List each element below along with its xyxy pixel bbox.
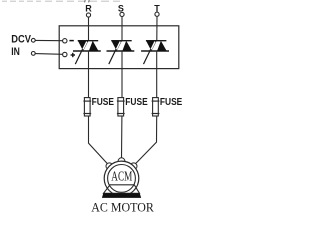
wire IN to box — [35, 53, 62, 56]
wire Q3 to fuse F3 — [156, 51, 158, 98]
svg-text:S: S — [118, 3, 124, 13]
plus sign — [71, 54, 75, 56]
terminal DCV — [31, 38, 35, 42]
node minus input — [63, 39, 67, 43]
fuse F3 — [152, 96, 183, 116]
wire Q2 to fuse F2 — [121, 51, 123, 98]
fuse F2 — [117, 96, 148, 116]
wire F2 to motor — [121, 116, 123, 159]
motor winding bump right — [130, 163, 137, 170]
fuse F1 — [83, 96, 114, 116]
controller box U1 — [59, 26, 179, 69]
cropped text descenders — [84, 0, 87, 2]
svg-text:IN: IN — [11, 46, 20, 58]
svg-text:ACM: ACM — [111, 168, 132, 183]
wire DCV to box — [35, 39, 62, 41]
cropped text remnants (top edge) — [2, 0, 120, 2]
triac Q2 — [107, 41, 135, 64]
terminal T — [155, 12, 159, 16]
wire T to box — [156, 17, 158, 41]
wire F1 to motor — [89, 116, 109, 164]
wire F3 to motor — [135, 116, 157, 164]
motor base bar — [102, 193, 141, 198]
svg-text:FUSE: FUSE — [125, 96, 147, 108]
minus sign — [69, 40, 73, 42]
svg-text:AC MOTOR: AC MOTOR — [91, 199, 154, 214]
svg-text:DCV: DCV — [11, 33, 31, 45]
terminal R — [86, 13, 90, 17]
motor winding bump left — [106, 163, 113, 170]
motor M1 outer circle — [104, 161, 139, 196]
wire R to box — [88, 17, 90, 41]
motor winding bump top — [118, 158, 125, 165]
triac Q1 — [73, 41, 101, 64]
node plus input — [63, 52, 67, 56]
svg-text:FUSE: FUSE — [160, 96, 182, 108]
svg-text:FUSE: FUSE — [92, 96, 114, 108]
wire Q1 to fuse F1 — [88, 51, 90, 98]
terminal S — [120, 12, 124, 16]
wire S to box — [121, 17, 123, 41]
svg-text:R: R — [85, 3, 92, 13]
triac Q3 — [141, 41, 169, 64]
terminal IN — [31, 52, 35, 56]
motor M1 inner circle — [108, 165, 136, 193]
motor mount trapezoid — [104, 185, 140, 194]
